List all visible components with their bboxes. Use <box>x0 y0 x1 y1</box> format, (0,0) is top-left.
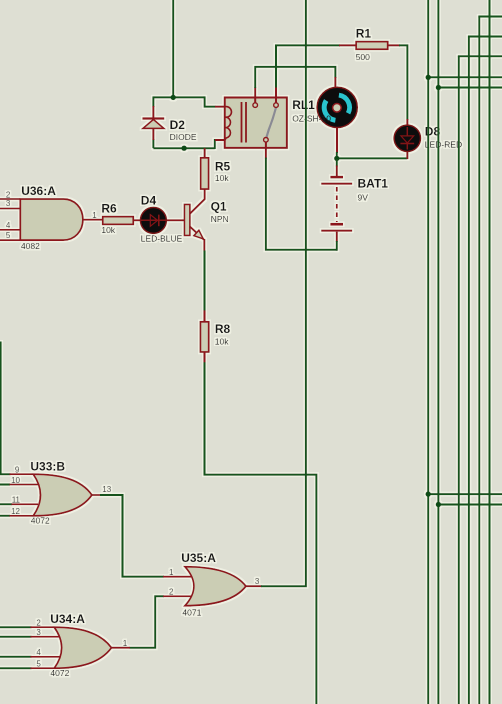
diode D2 <box>143 119 165 129</box>
svg-text:9: 9 <box>15 466 20 475</box>
wire U33 output to U35 pin 1 <box>100 495 164 577</box>
bus horizontal 7 <box>438 504 502 506</box>
bus horizontal 5 <box>438 87 502 89</box>
wire D2 lower vertical <box>152 139 154 148</box>
svg-text:D4: D4 <box>141 193 157 207</box>
wire D2 left vertical <box>152 96 154 107</box>
transistor Q1 base bar <box>184 204 190 235</box>
wire top horizontal over D2 <box>153 96 204 98</box>
bus horizontal 6 <box>428 493 502 495</box>
svg-text:R8: R8 <box>215 322 231 336</box>
gate U34:A pins <box>31 627 61 668</box>
node bus junction 3 <box>426 491 431 496</box>
R8 bottom pin <box>204 352 206 364</box>
resistor R8 <box>200 322 208 352</box>
svg-text:500: 500 <box>356 52 370 62</box>
wire relay left contact to buzzer <box>255 67 335 88</box>
wire battery minus down <box>336 241 338 251</box>
svg-text:RL1: RL1 <box>292 98 315 112</box>
relay coil pins maroon <box>215 107 225 140</box>
svg-text:4071: 4071 <box>182 607 201 617</box>
gate U33:B OR 4072 <box>33 474 92 516</box>
relay contact circle left <box>253 103 258 108</box>
U34 output pin <box>112 647 131 649</box>
svg-text:DIODE: DIODE <box>170 132 197 142</box>
relay switch blade <box>267 108 277 138</box>
svg-text:U34:A: U34:A <box>50 612 85 626</box>
svg-text:10k: 10k <box>215 336 229 346</box>
wire relay bottom contact to battery minus <box>266 158 337 250</box>
node junction buzzer battery D8 <box>334 156 339 161</box>
resistor R1 pins <box>339 44 400 46</box>
svg-text:U35:A: U35:A <box>181 551 216 565</box>
D8 top pin <box>406 119 408 127</box>
relay core <box>242 102 247 143</box>
gate U35:A pins <box>163 577 193 597</box>
wire U34 input stubs <box>0 627 32 668</box>
svg-text:12: 12 <box>11 507 20 516</box>
wire buzzer bottom to junction <box>336 152 338 158</box>
node junction at top of D2 loop <box>171 95 176 100</box>
relay coil <box>225 107 232 140</box>
svg-text:3: 3 <box>6 199 11 208</box>
svg-text:4: 4 <box>6 221 11 230</box>
svg-text:LED-BLUE: LED-BLUE <box>141 233 183 243</box>
svg-text:4: 4 <box>36 648 41 657</box>
node bus junction 4 <box>436 502 441 507</box>
svg-text:10k: 10k <box>101 225 115 235</box>
wire U33 input stubs <box>0 485 12 516</box>
gate U35:A OR 4071 <box>185 567 246 606</box>
U33 output pin <box>92 494 101 496</box>
svg-text:R6: R6 <box>101 202 117 216</box>
D8 bottom pin <box>406 150 408 159</box>
node bus junction 2 <box>436 85 441 90</box>
wire relay coil bottom feed <box>215 140 216 149</box>
wire Q1 emitter to R8 <box>204 251 206 312</box>
wire U36 output to R6 <box>83 219 103 221</box>
svg-text:13: 13 <box>102 485 111 494</box>
relay contact circle right <box>274 103 279 108</box>
svg-text:LED-RED: LED-RED <box>425 140 462 150</box>
LED D8 <box>394 125 420 151</box>
svg-text:10: 10 <box>11 476 20 485</box>
svg-text:2: 2 <box>36 619 41 628</box>
R8 top pin <box>204 310 206 322</box>
wire R1 to D8 <box>399 45 407 120</box>
svg-text:U36:A: U36:A <box>21 184 56 198</box>
bus horizontal 1 <box>478 16 502 18</box>
svg-text:R1: R1 <box>356 27 372 41</box>
resistor R5 <box>201 158 209 189</box>
svg-text:2: 2 <box>169 588 174 597</box>
svg-text:11: 11 <box>12 496 21 505</box>
wire buzzer junction to D8 <box>337 157 408 159</box>
svg-text:5: 5 <box>6 231 11 240</box>
svg-text:5: 5 <box>36 660 41 669</box>
wire relay coil top feed <box>205 96 216 106</box>
wire R8 down and across to bottom <box>205 362 317 704</box>
relay left contact pin up <box>254 87 256 102</box>
svg-text:D2: D2 <box>170 118 186 132</box>
relay right contact pin up <box>275 87 277 103</box>
battery top pin <box>336 159 338 167</box>
wire R5 tap <box>204 148 206 158</box>
svg-text:1: 1 <box>123 639 128 648</box>
svg-text:9V: 9V <box>358 192 369 202</box>
svg-text:1: 1 <box>169 568 174 577</box>
resistor R1 <box>356 42 388 50</box>
buzzer BUZ1 body <box>317 87 357 127</box>
svg-text:Q1: Q1 <box>211 200 227 214</box>
bus horizontal 2 <box>468 36 502 38</box>
bus vertical 4 <box>468 37 470 704</box>
relay RL1 body <box>225 98 287 148</box>
bus vertical 2 <box>437 0 439 704</box>
battery BAT1 <box>321 166 352 243</box>
svg-text:NPN: NPN <box>211 214 229 224</box>
svg-text:4072: 4072 <box>31 515 50 525</box>
svg-text:BAT1: BAT1 <box>358 177 389 191</box>
wire R6 to Q1 base through D4 <box>133 219 184 221</box>
svg-text:U33:B: U33:B <box>30 460 65 474</box>
transistor Q1 collector <box>190 189 205 214</box>
node bus junction 1 <box>426 75 431 80</box>
buzzer bottom pin <box>336 127 338 153</box>
wire relay right contact to R1 <box>276 45 340 87</box>
svg-text:3: 3 <box>255 577 260 586</box>
buzzer top pin <box>334 77 336 88</box>
wire top vertical to D2 net <box>172 0 174 97</box>
wire U34 output to U35 pin 2 <box>130 596 165 647</box>
gate U36:A pins <box>0 199 20 240</box>
svg-text:10k: 10k <box>215 173 229 183</box>
diode D2 pins <box>152 106 154 140</box>
wire left edge vertical to U33 pin 9 <box>1 342 11 475</box>
svg-text:4072: 4072 <box>50 668 69 678</box>
bus vertical 1 <box>427 0 429 704</box>
bus horizontal 4 <box>428 76 502 78</box>
wire U35 output riser to top <box>261 0 306 587</box>
svg-text:4082: 4082 <box>21 241 40 251</box>
bus vertical 5 <box>478 17 480 704</box>
transistor Q1 emitter <box>190 226 205 251</box>
svg-text:3: 3 <box>36 628 41 637</box>
gate U33:B pins <box>10 474 39 516</box>
U35 output pin <box>246 585 262 587</box>
bus horizontal 3 <box>458 55 502 57</box>
svg-text:R5: R5 <box>215 159 231 173</box>
bus vertical 3 <box>458 56 460 704</box>
relay contact circle bottom <box>264 138 269 143</box>
wire bottom horizontal of D2 loop <box>153 147 214 149</box>
LED D4 <box>140 207 166 233</box>
svg-text:1: 1 <box>92 211 97 220</box>
resistor R6 <box>103 217 134 225</box>
node junction on bottom wire <box>181 146 186 151</box>
svg-text:OZ-SH-10: OZ-SH-10 <box>292 114 331 124</box>
relay bottom contact pin down <box>265 142 267 159</box>
gate U34:A OR 4072 <box>54 627 111 668</box>
gate U36:A AND 4082 <box>20 199 83 240</box>
bus vertical 6 <box>489 0 491 704</box>
transistor Q1 emitter arrow <box>194 230 204 239</box>
